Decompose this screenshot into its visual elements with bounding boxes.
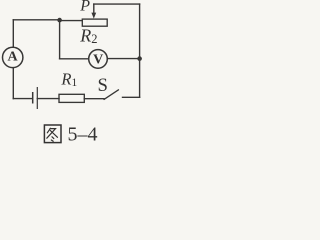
wire ammeter bottom to battery xyxy=(12,68,14,99)
rheostat R2 slider arrowhead xyxy=(91,13,96,19)
rheostat R2 body xyxy=(82,19,107,26)
wire slider stem xyxy=(93,4,95,13)
wire bottom-left to battery xyxy=(13,98,32,100)
resistor R1 body xyxy=(59,94,84,102)
battery negative plate (short) xyxy=(32,92,34,104)
wire top (slider to right corner) xyxy=(94,3,140,5)
wire battery to R1 xyxy=(37,98,59,100)
wire switch right contact to corner xyxy=(123,96,140,98)
svg-text:V: V xyxy=(93,52,103,67)
svg-text:P: P xyxy=(79,0,90,15)
svg-text:R2: R2 xyxy=(79,26,97,46)
caption character tu (图) xyxy=(44,125,61,143)
wire node junction vertical down to voltmeter branch xyxy=(59,20,61,59)
wire right vertical xyxy=(139,4,141,97)
wire junction to R2 left terminal xyxy=(60,20,83,22)
wire R1 to switch xyxy=(84,98,104,100)
ammeter A1 circle xyxy=(3,47,23,67)
switch S lever xyxy=(104,90,119,100)
node junction dot right xyxy=(137,56,142,61)
wire top-left horizontal xyxy=(13,19,59,21)
svg-text:5–4: 5–4 xyxy=(68,124,98,146)
battery positive plate (long) xyxy=(36,87,38,109)
svg-text:S: S xyxy=(98,75,108,96)
node junction dot left xyxy=(57,18,62,23)
voltmeter V1 circle xyxy=(89,50,108,69)
wire voltmeter right lead xyxy=(108,58,140,60)
svg-text:A: A xyxy=(8,50,19,65)
wire left vertical (corner to ammeter) xyxy=(12,20,14,47)
svg-text:R1: R1 xyxy=(60,70,77,90)
wire voltmeter left lead xyxy=(60,58,89,60)
